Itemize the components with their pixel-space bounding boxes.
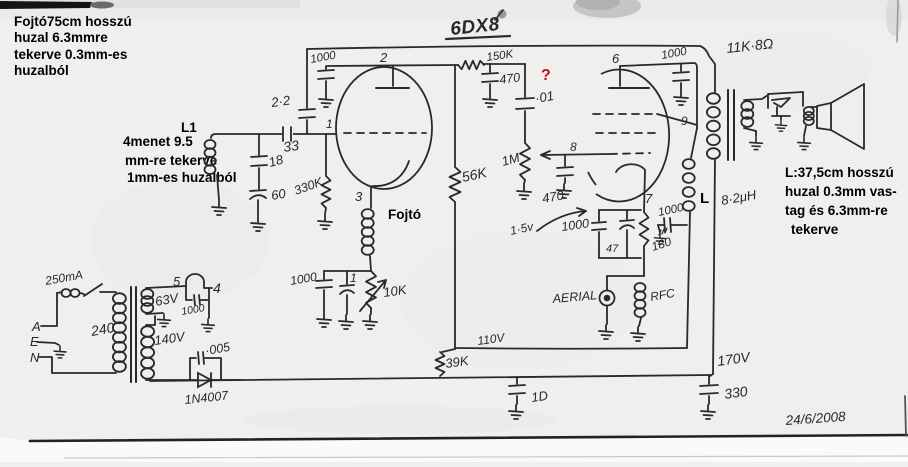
svg-text:2: 2 xyxy=(379,50,388,65)
svg-text:4: 4 xyxy=(213,280,221,296)
svg-text:3: 3 xyxy=(355,189,363,204)
svg-text:huzal 6.3mmre: huzal 6.3mmre xyxy=(14,30,108,45)
svg-text:470: 470 xyxy=(498,70,521,87)
svg-text:47: 47 xyxy=(606,243,619,255)
svg-text:tekerve: tekerve xyxy=(791,222,839,237)
svg-text:1mm-es huzalból: 1mm-es huzalból xyxy=(127,170,237,185)
svg-text:huzalból: huzalból xyxy=(14,63,69,78)
svg-text:?: ? xyxy=(541,67,551,84)
svg-text:1: 1 xyxy=(350,271,357,285)
svg-text:A: A xyxy=(31,319,41,334)
svg-text:tekerve 0.3mm-es: tekerve 0.3mm-es xyxy=(14,47,127,62)
svg-text:4menet 9.5: 4menet 9.5 xyxy=(123,134,193,149)
svg-text:1: 1 xyxy=(326,117,333,131)
svg-text:6: 6 xyxy=(612,51,620,66)
svg-text:330: 330 xyxy=(723,383,749,402)
svg-text:8: 8 xyxy=(570,140,577,154)
svg-text:1D: 1D xyxy=(530,388,549,405)
svg-text:33: 33 xyxy=(282,137,300,155)
svg-text:Fojtó75cm hosszú: Fojtó75cm hosszú xyxy=(14,14,132,29)
svg-text:tag és 6.3mm-re: tag és 6.3mm-re xyxy=(785,203,888,218)
svg-text:L: L xyxy=(700,190,709,207)
svg-text:2·2: 2·2 xyxy=(269,92,291,110)
svg-text:L1: L1 xyxy=(181,120,197,135)
svg-text:L:37,5cm hosszú: L:37,5cm hosszú xyxy=(785,165,894,180)
svg-text:7: 7 xyxy=(645,191,653,206)
svg-text:huzal 0.3mm vas-: huzal 0.3mm vas- xyxy=(785,184,897,199)
svg-text:Fojtó: Fojtó xyxy=(388,207,421,222)
svg-text:5: 5 xyxy=(173,274,181,289)
